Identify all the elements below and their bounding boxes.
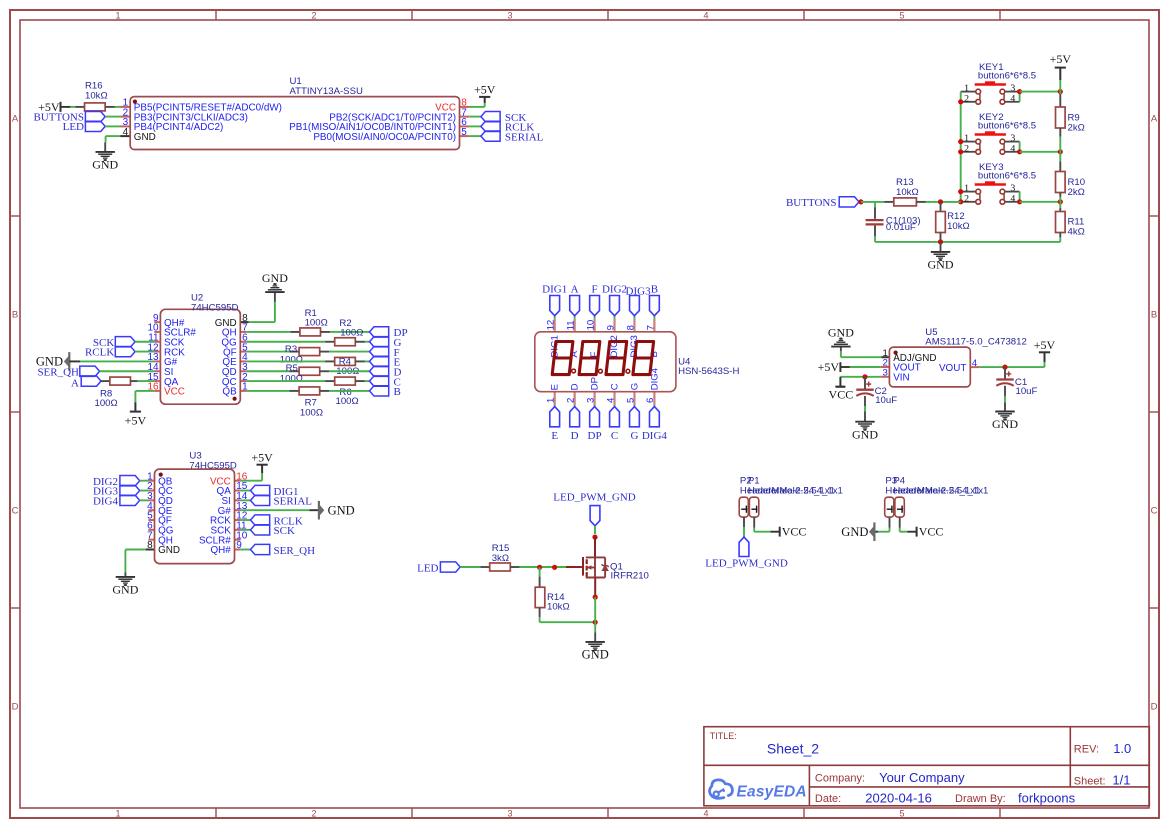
svg-text:2kΩ: 2kΩ <box>1068 122 1085 133</box>
svg-text:2: 2 <box>311 809 316 819</box>
svg-text:DIG3: DIG3 <box>626 285 652 297</box>
svg-text:GND: GND <box>158 545 180 556</box>
svg-text:LED_PWM_GND: LED_PWM_GND <box>553 491 636 503</box>
svg-text:7: 7 <box>645 325 656 330</box>
svg-text:GND: GND <box>92 158 118 172</box>
svg-text:SERIAL: SERIAL <box>505 131 544 143</box>
svg-text:B: B <box>394 386 401 398</box>
svg-text:GND: GND <box>328 503 355 517</box>
svg-text:B: B <box>1151 309 1157 320</box>
svg-text:6: 6 <box>645 398 656 403</box>
svg-text:74HC595D: 74HC595D <box>189 460 237 471</box>
svg-text:DP: DP <box>588 430 602 442</box>
svg-text:4: 4 <box>703 809 708 819</box>
svg-text:VOUT: VOUT <box>939 363 966 374</box>
svg-text:forkpoons: forkpoons <box>1018 790 1076 805</box>
svg-text:A: A <box>1151 113 1158 124</box>
svg-text:4: 4 <box>1010 93 1015 104</box>
svg-text:C: C <box>12 505 19 516</box>
svg-text:C: C <box>611 430 618 442</box>
svg-text:2kΩ: 2kΩ <box>1068 187 1085 198</box>
svg-text:D: D <box>570 383 581 390</box>
svg-text:AMS1117-5.0_C473812: AMS1117-5.0_C473812 <box>925 337 1027 348</box>
svg-text:1: 1 <box>115 809 120 819</box>
svg-text:+5V: +5V <box>474 83 496 97</box>
svg-text:GND: GND <box>582 648 609 662</box>
svg-text:3: 3 <box>507 809 512 819</box>
svg-text:+5V: +5V <box>1034 338 1056 352</box>
svg-text:3: 3 <box>882 368 887 379</box>
svg-text:E: E <box>551 430 558 442</box>
svg-text:SERIAL: SERIAL <box>274 496 313 508</box>
svg-text:SCK: SCK <box>274 525 295 537</box>
svg-text:+5V: +5V <box>251 450 273 464</box>
svg-text:4: 4 <box>1010 193 1015 204</box>
svg-text:QH#: QH# <box>210 545 231 556</box>
svg-text:ATTINY13A-SSU: ATTINY13A-SSU <box>290 86 363 97</box>
svg-text:5: 5 <box>899 809 904 819</box>
svg-text:PB0(MOSI/AIN0/OC0A/PCINT0): PB0(MOSI/AIN0/OC0A/PCINT0) <box>313 132 456 143</box>
svg-text:9: 9 <box>236 540 242 551</box>
svg-text:Your Company: Your Company <box>879 770 965 785</box>
svg-text:11: 11 <box>566 320 577 330</box>
svg-text:VCC: VCC <box>782 524 807 538</box>
svg-text:TITLE:: TITLE: <box>710 731 737 741</box>
svg-text:4kΩ: 4kΩ <box>1068 226 1085 237</box>
svg-text:10: 10 <box>586 320 597 331</box>
svg-text:12: 12 <box>546 320 557 331</box>
svg-text:EasyEDA: EasyEDA <box>737 784 807 801</box>
svg-text:10kΩ: 10kΩ <box>896 187 919 198</box>
svg-text:VIN: VIN <box>893 373 909 384</box>
svg-text:100Ω: 100Ω <box>280 373 303 384</box>
svg-text:B: B <box>651 284 658 296</box>
svg-text:GND: GND <box>828 326 854 340</box>
svg-text:QB: QB <box>222 387 237 398</box>
svg-text:IRFR210: IRFR210 <box>611 570 649 581</box>
svg-text:HeaderMale-2.54_1x1: HeaderMale-2.54_1x1 <box>748 485 843 496</box>
svg-text:3: 3 <box>585 398 596 403</box>
svg-text:4: 4 <box>703 11 708 21</box>
svg-text:DP: DP <box>590 377 601 390</box>
svg-text:2: 2 <box>964 143 969 154</box>
svg-text:GND: GND <box>262 271 288 285</box>
svg-text:10uF: 10uF <box>1016 386 1038 397</box>
svg-text:LED_PWM_GND: LED_PWM_GND <box>705 558 788 570</box>
svg-text:SER_QH: SER_QH <box>274 545 316 557</box>
svg-text:100Ω: 100Ω <box>305 317 328 328</box>
svg-text:Company:: Company: <box>815 773 865 785</box>
svg-text:2: 2 <box>565 398 576 403</box>
svg-text:1/1: 1/1 <box>1112 773 1130 788</box>
svg-text:10uF: 10uF <box>875 395 897 406</box>
svg-text:+5V: +5V <box>125 413 147 427</box>
svg-text:C: C <box>1151 505 1158 516</box>
svg-text:9: 9 <box>606 325 617 330</box>
svg-text:D: D <box>571 430 579 442</box>
svg-text:DIG2: DIG2 <box>602 284 627 296</box>
svg-text:4: 4 <box>1010 143 1015 154</box>
svg-text:A: A <box>71 377 79 389</box>
svg-text:5: 5 <box>899 11 904 21</box>
svg-text:8: 8 <box>625 325 636 330</box>
svg-text:4: 4 <box>972 358 978 369</box>
svg-text:10kΩ: 10kΩ <box>85 91 108 102</box>
svg-text:DIG1: DIG1 <box>542 284 567 296</box>
svg-text:8: 8 <box>147 540 153 551</box>
svg-text:E: E <box>550 384 561 390</box>
svg-text:4: 4 <box>123 127 129 138</box>
svg-text:button6*6*8.5: button6*6*8.5 <box>978 120 1036 131</box>
svg-text:GND: GND <box>134 132 156 143</box>
svg-text:GND: GND <box>841 525 868 539</box>
svg-text:3: 3 <box>507 11 512 21</box>
svg-text:100Ω: 100Ω <box>300 407 323 418</box>
svg-text:B: B <box>12 309 18 320</box>
svg-text:2: 2 <box>964 193 969 204</box>
svg-text:button6*6*8.5: button6*6*8.5 <box>978 70 1036 81</box>
svg-text:LED: LED <box>63 121 84 133</box>
svg-text:GND: GND <box>928 258 954 272</box>
svg-text:D: D <box>1151 701 1158 712</box>
svg-text:4: 4 <box>605 397 616 403</box>
svg-text:+5V: +5V <box>818 360 840 374</box>
svg-text:1: 1 <box>546 398 557 403</box>
svg-text:GND: GND <box>992 417 1018 431</box>
svg-text:1.0: 1.0 <box>1113 741 1131 756</box>
svg-text:GND: GND <box>112 583 138 597</box>
svg-text:2: 2 <box>311 11 316 21</box>
svg-text:3kΩ: 3kΩ <box>492 553 509 564</box>
svg-text:0.01uF: 0.01uF <box>886 222 916 233</box>
svg-text:C: C <box>610 383 621 390</box>
svg-text:100Ω: 100Ω <box>95 398 118 409</box>
svg-text:DIG2: DIG2 <box>609 335 620 357</box>
svg-text:VCC: VCC <box>829 387 854 401</box>
svg-text:Drawn By:: Drawn By: <box>955 793 1006 805</box>
svg-text:BUTTONS: BUTTONS <box>786 197 837 209</box>
svg-text:D: D <box>12 701 19 712</box>
svg-text:VCC: VCC <box>164 387 185 398</box>
svg-text:DIG4: DIG4 <box>642 430 668 442</box>
svg-text:HeaderMale-2.54_1x1: HeaderMale-2.54_1x1 <box>893 485 988 496</box>
svg-text:DIG4: DIG4 <box>93 496 119 508</box>
svg-text:Sheet_2: Sheet_2 <box>767 741 819 757</box>
svg-text:2020-04-16: 2020-04-16 <box>865 790 932 805</box>
svg-text:2: 2 <box>964 93 969 104</box>
svg-text:G: G <box>629 383 640 390</box>
svg-text:A: A <box>571 284 579 296</box>
svg-text:REV:: REV: <box>1074 744 1099 756</box>
svg-text:10kΩ: 10kΩ <box>947 221 970 232</box>
svg-text:Sheet:: Sheet: <box>1074 776 1106 788</box>
svg-text:100Ω: 100Ω <box>336 396 359 407</box>
svg-text:Date:: Date: <box>815 793 841 805</box>
svg-text:+5V: +5V <box>1050 52 1072 66</box>
svg-text:RCLK: RCLK <box>85 347 114 359</box>
svg-text:VCC: VCC <box>919 524 944 538</box>
svg-text:1: 1 <box>115 11 120 21</box>
svg-text:1: 1 <box>242 382 248 393</box>
svg-text:100Ω: 100Ω <box>340 327 363 338</box>
svg-text:A: A <box>12 113 19 124</box>
svg-text:10kΩ: 10kΩ <box>547 601 570 612</box>
svg-text:GND: GND <box>852 427 878 441</box>
svg-text:button6*6*8.5: button6*6*8.5 <box>978 170 1036 181</box>
svg-text:5: 5 <box>625 398 636 403</box>
svg-text:HSN-5643S-H: HSN-5643S-H <box>678 366 739 377</box>
svg-text:LED: LED <box>417 562 438 574</box>
svg-text:G: G <box>630 430 638 442</box>
svg-text:5: 5 <box>461 127 467 138</box>
svg-text:F: F <box>592 284 598 296</box>
svg-text:74HC595D: 74HC595D <box>191 302 239 313</box>
